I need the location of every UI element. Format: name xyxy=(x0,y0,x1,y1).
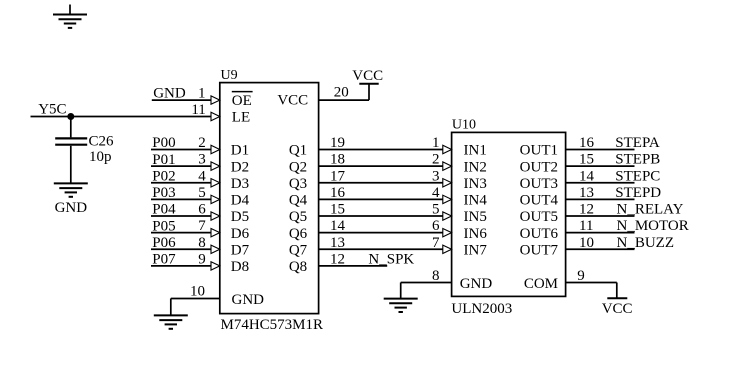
pin number 5 (U10 IN5) xyxy=(432,202,440,218)
svg-text:LE: LE xyxy=(232,109,250,125)
svg-text:IN2: IN2 xyxy=(464,159,487,175)
pin name Q6 xyxy=(289,226,308,242)
svg-text:11: 11 xyxy=(191,102,205,118)
svg-text:7: 7 xyxy=(198,218,206,234)
svg-text:N_SPK: N_SPK xyxy=(368,251,414,267)
pin number 10 xyxy=(190,284,205,300)
svg-text:GND: GND xyxy=(153,86,186,102)
pin number 6 xyxy=(198,202,206,218)
pin name GND (U9) xyxy=(232,292,265,308)
wire Q4 to IN4 xyxy=(319,195,452,203)
net label P02 xyxy=(152,168,175,184)
svg-text:15: 15 xyxy=(579,152,594,168)
pin name D1 xyxy=(231,143,249,159)
svg-text:OUT7: OUT7 xyxy=(520,242,559,258)
svg-text:5: 5 xyxy=(432,202,440,218)
pin number 7 (U10 IN7) xyxy=(432,235,440,251)
pin name D5 xyxy=(231,209,249,225)
svg-text:D1: D1 xyxy=(231,143,249,159)
svg-text:D4: D4 xyxy=(231,193,250,209)
pin name IN4 xyxy=(464,193,488,209)
pin number 12 (U9 Q8) xyxy=(330,251,345,267)
svg-text:11: 11 xyxy=(579,218,593,234)
pin number 11 xyxy=(191,102,205,118)
svg-text:6: 6 xyxy=(198,202,206,218)
pin number 15 (U10 OUT2) xyxy=(579,152,594,168)
svg-text:16: 16 xyxy=(579,135,595,151)
svg-text:19: 19 xyxy=(330,135,345,151)
pin name OUT6 xyxy=(520,226,559,242)
pin name Q5 xyxy=(289,209,307,225)
power label VCC (bottom) xyxy=(602,301,633,317)
refdes U9 xyxy=(221,68,238,83)
svg-text:13: 13 xyxy=(579,185,594,201)
wire Y5C node to C26 xyxy=(70,117,72,138)
svg-text:D8: D8 xyxy=(231,259,249,275)
wire U10 GND pin to ground xyxy=(401,283,452,299)
svg-text:18: 18 xyxy=(330,152,345,168)
pin name OUT5 xyxy=(520,209,558,225)
wire Q1 to IN1 xyxy=(319,145,452,153)
value label 10p xyxy=(89,149,112,165)
wire P01 to U9 D2 xyxy=(151,162,220,170)
pin number 3 (U10 IN3) xyxy=(432,168,440,184)
wire OUT7 N_BUZZ stub xyxy=(566,248,635,250)
pin number 6 (U10 IN6) xyxy=(432,218,440,234)
svg-text:12: 12 xyxy=(330,251,345,267)
pin name Q7 xyxy=(289,242,308,258)
ic U9 M74HC573M1R box xyxy=(220,83,319,314)
net label N_RELAY xyxy=(617,202,684,218)
pin name Q1 xyxy=(289,143,307,159)
svg-text:14: 14 xyxy=(330,218,346,234)
part label ULN2003 xyxy=(451,301,512,317)
wire U9 VCC pin to VCC symbol xyxy=(319,84,369,100)
pin number 7 xyxy=(198,218,206,234)
svg-text:Q3: Q3 xyxy=(289,176,307,192)
svg-text:9: 9 xyxy=(198,251,206,267)
svg-text:GND: GND xyxy=(232,292,265,308)
svg-text:IN5: IN5 xyxy=(464,209,487,225)
svg-text:VCC: VCC xyxy=(602,301,633,317)
svg-text:COM: COM xyxy=(524,276,558,292)
svg-text:13: 13 xyxy=(330,235,345,251)
wire OUT5 N_RELAY stub xyxy=(566,215,635,217)
svg-text:OUT6: OUT6 xyxy=(520,226,559,242)
pin name OUT7 xyxy=(520,242,559,258)
svg-text:IN7: IN7 xyxy=(464,242,488,258)
pin number 13 (U9 Q7) xyxy=(330,235,345,251)
net label STEPB xyxy=(615,152,660,168)
svg-text:STEPB: STEPB xyxy=(615,152,660,168)
pin name D6 xyxy=(231,226,250,242)
part label M74HC573M1R xyxy=(221,317,324,333)
svg-text:GND: GND xyxy=(460,276,493,292)
net label P07 xyxy=(152,252,176,268)
net label P06 xyxy=(152,235,176,251)
svg-text:16: 16 xyxy=(330,185,346,201)
svg-text:N_MOTOR: N_MOTOR xyxy=(617,218,689,234)
wire Q2 to IN2 xyxy=(319,162,452,170)
svg-text:Q7: Q7 xyxy=(289,242,308,258)
net label N_SPK xyxy=(368,251,414,267)
wire C26 to ground xyxy=(70,146,72,184)
pin number 2 xyxy=(198,135,206,151)
svg-text:2: 2 xyxy=(198,135,206,151)
wire OUT3 STEPC stub xyxy=(566,182,635,184)
svg-text:Q8: Q8 xyxy=(289,259,307,275)
net label Y5C xyxy=(38,102,66,118)
wire Q5 to IN5 xyxy=(319,212,452,220)
ground (U10) xyxy=(384,299,418,312)
net label P04 xyxy=(152,202,176,218)
pin name COM xyxy=(524,276,558,292)
svg-text:9: 9 xyxy=(577,268,585,284)
wire P04 to U9 D5 xyxy=(151,212,220,220)
svg-text:17: 17 xyxy=(330,168,346,184)
svg-text:Y5C: Y5C xyxy=(38,102,66,118)
svg-text:Q1: Q1 xyxy=(289,143,307,159)
svg-text:14: 14 xyxy=(579,168,595,184)
pin number 5 xyxy=(198,185,206,201)
svg-text:10: 10 xyxy=(190,284,205,300)
pin number 18 (U9 Q2) xyxy=(330,152,345,168)
pin name LE xyxy=(232,109,250,125)
svg-text:IN6: IN6 xyxy=(464,226,488,242)
net label GND (pin 1) xyxy=(153,86,186,102)
wire U10 COM pin to VCC symbol xyxy=(566,283,617,298)
svg-text:M74HC573M1R: M74HC573M1R xyxy=(221,317,324,333)
net label STEPD xyxy=(615,185,661,201)
svg-text:D3: D3 xyxy=(231,176,249,192)
wire P07 to U9 D8 xyxy=(151,262,220,270)
svg-text:STEPA: STEPA xyxy=(615,135,660,151)
svg-text:VCC: VCC xyxy=(277,93,308,109)
svg-text:8: 8 xyxy=(432,268,440,284)
net label P01 xyxy=(152,152,175,168)
wire Y5C to U9 LE xyxy=(31,112,220,120)
svg-text:4: 4 xyxy=(198,168,206,184)
wire U9 GND pin to ground xyxy=(171,299,220,316)
svg-text:6: 6 xyxy=(432,218,440,234)
net label P05 xyxy=(152,218,175,234)
svg-text:D7: D7 xyxy=(231,242,250,258)
net label STEPC xyxy=(615,168,660,184)
pin number 9 xyxy=(577,268,585,284)
wire OUT4 STEPD stub xyxy=(566,198,635,200)
ground (U9) xyxy=(154,315,188,328)
pin number 11 (U10 OUT6) xyxy=(579,218,593,234)
svg-text:1: 1 xyxy=(198,86,206,102)
pin name Q4 xyxy=(289,193,308,209)
power symbol VCC (bottom) xyxy=(607,297,627,299)
pin name IN7 xyxy=(464,242,488,258)
pin name IN2 xyxy=(464,159,487,175)
pin name D8 xyxy=(231,259,249,275)
value label C26 xyxy=(89,133,115,149)
svg-text:U9: U9 xyxy=(221,68,238,83)
pin number 8 xyxy=(432,268,440,284)
pin number 12 (U10 OUT5) xyxy=(579,202,594,218)
ground (C26) xyxy=(54,183,88,196)
pin number 3 xyxy=(198,152,206,168)
pin name D4 xyxy=(231,193,250,209)
pin number 1 xyxy=(198,86,206,102)
svg-text:OUT2: OUT2 xyxy=(520,159,558,175)
svg-text:STEPC: STEPC xyxy=(615,168,660,184)
svg-text:Q2: Q2 xyxy=(289,159,307,175)
pin number 15 (U9 Q5) xyxy=(330,202,345,218)
pin name Q3 xyxy=(289,176,307,192)
net label STEPA xyxy=(615,135,660,151)
wire Q3 to IN3 xyxy=(319,179,452,187)
pin name OUT2 xyxy=(520,159,558,175)
svg-text:4: 4 xyxy=(432,185,440,201)
power symbol VCC (top) xyxy=(359,83,378,85)
pin name OUT1 xyxy=(520,143,558,159)
svg-text:10: 10 xyxy=(579,235,594,251)
pin name D2 xyxy=(231,159,249,175)
pin number 17 (U9 Q3) xyxy=(330,168,346,184)
net label N_BUZZ xyxy=(617,235,675,251)
hidden ground (top-left) xyxy=(53,5,87,28)
wire OUT2 STEPB stub xyxy=(566,165,635,167)
power label VCC (top) xyxy=(352,68,383,84)
pin name Q8 xyxy=(289,259,307,275)
svg-text:8: 8 xyxy=(198,235,206,251)
pin name IN5 xyxy=(464,209,487,225)
svg-text:5: 5 xyxy=(198,185,206,201)
wire P05 to U9 D6 xyxy=(151,228,220,236)
pin number 14 (U9 Q6) xyxy=(330,218,346,234)
pin number 16 (U10 OUT1) xyxy=(579,135,595,151)
wire Q6 to IN6 xyxy=(319,228,452,236)
pin number 9 xyxy=(198,251,206,267)
pin number 20 xyxy=(334,85,349,101)
svg-text:OUT5: OUT5 xyxy=(520,209,558,225)
svg-text:D5: D5 xyxy=(231,209,249,225)
pin name OE (active low) xyxy=(232,92,253,109)
pin name Q2 xyxy=(289,159,307,175)
svg-text:VCC: VCC xyxy=(352,68,383,84)
pin name IN1 xyxy=(464,143,487,159)
wire P06 to U9 D7 xyxy=(151,245,220,253)
ic U10 ULN2003 box xyxy=(452,132,566,296)
svg-text:U10: U10 xyxy=(452,118,476,133)
svg-text:Q4: Q4 xyxy=(289,193,308,209)
pin number 16 (U9 Q4) xyxy=(330,185,346,201)
pin number 19 (U9 Q1) xyxy=(330,135,345,151)
svg-text:7: 7 xyxy=(432,235,440,251)
svg-text:IN3: IN3 xyxy=(464,176,487,192)
svg-text:Q6: Q6 xyxy=(289,226,308,242)
pin number 8 xyxy=(198,235,206,251)
wire Q7 to IN7 xyxy=(319,245,452,253)
wire GND to U9 OE xyxy=(152,96,220,104)
svg-text:20: 20 xyxy=(334,85,349,101)
wire OUT1 STEPA stub xyxy=(566,149,635,151)
svg-text:ULN2003: ULN2003 xyxy=(451,301,512,317)
svg-text:STEPD: STEPD xyxy=(615,185,661,201)
net label N_MOTOR xyxy=(617,218,689,234)
svg-text:OE: OE xyxy=(232,93,252,109)
wire Q8 N_SPK stub xyxy=(319,265,388,267)
svg-text:IN1: IN1 xyxy=(464,143,487,159)
wire P00 to U9 D1 xyxy=(151,145,220,153)
pin name OUT3 xyxy=(520,176,558,192)
pin number 13 (U10 OUT4) xyxy=(579,185,594,201)
pin name D7 xyxy=(231,242,250,258)
svg-text:C26: C26 xyxy=(89,133,115,149)
pin name D3 xyxy=(231,176,249,192)
pin name IN6 xyxy=(464,226,488,242)
pin name IN3 xyxy=(464,176,487,192)
svg-text:2: 2 xyxy=(432,152,440,168)
pin number 14 (U10 OUT3) xyxy=(579,168,595,184)
svg-text:N_RELAY: N_RELAY xyxy=(617,202,684,218)
svg-text:N_BUZZ: N_BUZZ xyxy=(617,235,675,251)
net label P03 xyxy=(152,185,175,201)
svg-text:OUT4: OUT4 xyxy=(520,193,559,209)
ground label GND xyxy=(55,200,88,216)
wire OUT6 N_MOTOR stub xyxy=(566,232,635,234)
junction node Y5C/C26 xyxy=(67,113,74,120)
capacitor C26 xyxy=(55,138,87,144)
svg-text:GND: GND xyxy=(55,200,88,216)
svg-text:1: 1 xyxy=(432,135,440,151)
svg-text:3: 3 xyxy=(432,168,440,184)
svg-text:D6: D6 xyxy=(231,226,250,242)
svg-text:15: 15 xyxy=(330,202,345,218)
pin name VCC xyxy=(277,93,308,109)
pin name OUT4 xyxy=(520,193,559,209)
svg-text:OUT3: OUT3 xyxy=(520,176,558,192)
refdes U10 xyxy=(452,118,476,133)
pin number 4 (U10 IN4) xyxy=(432,185,440,201)
net label P00 xyxy=(152,135,175,151)
svg-text:3: 3 xyxy=(198,152,206,168)
pin number 1 (U10 IN1) xyxy=(432,135,440,151)
wire P03 to U9 D4 xyxy=(151,195,220,203)
pin number 4 xyxy=(198,168,206,184)
pin number 2 (U10 IN2) xyxy=(432,152,440,168)
svg-text:Q5: Q5 xyxy=(289,209,307,225)
pin name GND (U10) xyxy=(460,276,493,292)
svg-text:OUT1: OUT1 xyxy=(520,143,558,159)
svg-text:D2: D2 xyxy=(231,159,249,175)
svg-text:IN4: IN4 xyxy=(464,193,488,209)
wire P02 to U9 D3 xyxy=(151,179,220,187)
pin number 10 (U10 OUT7) xyxy=(579,235,594,251)
svg-text:10p: 10p xyxy=(89,149,112,165)
svg-text:12: 12 xyxy=(579,202,594,218)
